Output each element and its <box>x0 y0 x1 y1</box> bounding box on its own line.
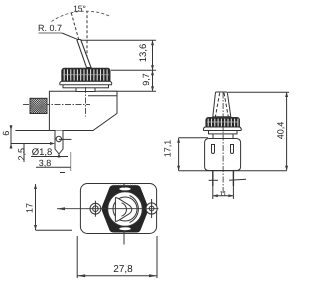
hatched panel section <box>30 98 47 113</box>
right ear <box>146 203 157 214</box>
bushing circle arc <box>113 197 137 221</box>
front body slot left <box>212 145 215 154</box>
svg-text:15°: 15° <box>73 4 86 14</box>
side view washer 1 <box>60 81 112 85</box>
top view body rect <box>80 184 156 234</box>
hex flat serrations <box>114 184 136 233</box>
front terminal left <box>212 171 214 187</box>
arrows dim 13,6 9,7 <box>151 40 154 91</box>
hex nut white slivers <box>119 187 131 230</box>
svg-text:27,8: 27,8 <box>113 264 133 275</box>
svg-text:40,4: 40,4 <box>275 122 285 140</box>
arc detail right <box>130 196 139 223</box>
dimension 40,4 <box>286 92 288 171</box>
svg-text:11: 11 <box>219 191 226 198</box>
dimension 17,1 <box>179 137 208 139</box>
dashed swing arc 15 deg <box>52 11 111 21</box>
extension line lever top front <box>228 91 289 93</box>
side body ledge <box>88 95 117 97</box>
arrow at terminal tip <box>58 153 61 158</box>
front nut knurl ticks <box>208 119 238 127</box>
arrows dim 11 <box>213 194 234 197</box>
side view horizontal centerline <box>23 104 90 106</box>
svg-text:6: 6 <box>1 131 11 136</box>
left ear hole <box>93 206 99 212</box>
extension line lever tip side view <box>81 39 156 41</box>
terminal hole leader <box>59 138 72 140</box>
lever D inner arc <box>122 203 127 216</box>
side nut highlight line <box>63 74 109 76</box>
front view knurled nut <box>206 118 240 128</box>
front lever dashed left <box>215 93 219 117</box>
dimension 11 <box>212 186 214 199</box>
front view washer 1 <box>203 127 241 131</box>
hex nut top view <box>102 186 148 232</box>
lever D shape top <box>115 198 131 222</box>
dimension 27,8 <box>76 236 78 278</box>
left ear mounting boss <box>90 203 101 214</box>
svg-text:3,8: 3,8 <box>39 158 52 168</box>
front view body <box>205 139 241 171</box>
dimension line 13,6 / 9,7 <box>152 40 154 91</box>
terminal hole <box>56 136 61 141</box>
top view horizontal centerline leader with arrow <box>57 208 159 210</box>
front view bushing <box>213 134 233 139</box>
front lever dashed right <box>224 93 228 117</box>
terminal cross tick right <box>229 179 246 180</box>
svg-text:17: 17 <box>24 203 34 213</box>
side view washer 2 <box>63 84 109 88</box>
arrows dim 27,8 <box>77 274 157 277</box>
front view lever <box>213 92 231 117</box>
side view vertical centerline <box>85 87 87 117</box>
side view lever <box>77 39 91 67</box>
shared bottom extension line 17,1 / 40,4 <box>179 170 287 172</box>
svg-text:13,6: 13,6 <box>138 44 149 63</box>
side view bushing <box>76 87 95 92</box>
arrows dim 6 <box>10 126 13 149</box>
front nut highlight line <box>207 121 239 123</box>
arrows dim 17,1 <box>177 138 180 171</box>
dashed vertical rest position <box>86 12 88 69</box>
inner circle washer edge <box>108 192 143 227</box>
arrows dim 17 <box>34 184 37 230</box>
dimension 17 <box>35 184 37 230</box>
dashed lever axis extension <box>71 13 79 40</box>
dimension 2,5 <box>23 144 25 163</box>
side nut knurl ticks <box>64 69 107 80</box>
side view knurled nut <box>62 68 110 81</box>
leader arrow to terminal <box>50 142 55 145</box>
extension line nut top side view <box>111 69 156 71</box>
top view vertical centerline stub <box>123 184 125 188</box>
terminal cross tick left <box>209 179 218 181</box>
arrows dim 40,4 <box>285 92 288 171</box>
dimension 6 <box>10 125 12 149</box>
front body slot right <box>231 145 234 154</box>
svg-text:R. 0.7: R. 0.7 <box>38 23 62 33</box>
svg-text:2,5: 2,5 <box>16 148 26 161</box>
front view washer 2 <box>209 131 238 134</box>
front terminal right <box>232 171 234 187</box>
svg-text:17,1: 17,1 <box>162 140 172 158</box>
side view terminal <box>55 131 63 155</box>
svg-text:9,7: 9,7 <box>141 73 151 86</box>
body bottom extension line <box>15 130 55 132</box>
side view body <box>49 91 117 130</box>
extension line body step side view <box>99 90 156 92</box>
front view centerline <box>222 93 224 195</box>
leader R 0.7 to lever tip <box>62 33 79 40</box>
